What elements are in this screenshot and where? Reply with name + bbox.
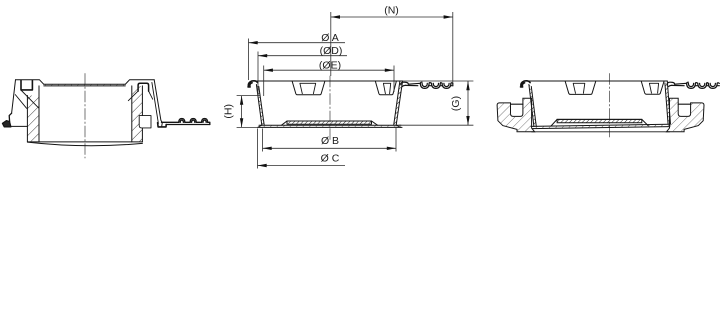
raised bottom panel — [282, 121, 378, 125]
labels — [223, 5, 462, 165]
svg-text:(ØE): (ØE) — [319, 60, 341, 72]
right bayonet window — [139, 116, 151, 128]
right hatched wall band — [132, 86, 143, 142]
dim H — [237, 96, 260, 128]
bottom band right view — [531, 124, 670, 128]
dim E — [264, 66, 394, 97]
svg-text:(G): (G) — [450, 96, 462, 111]
raised bottom panel right view — [551, 119, 648, 126]
svg-text:Ø C: Ø C — [321, 153, 340, 165]
bottom band ticks — [259, 125, 401, 127]
tab ledge line — [11, 125, 27, 127]
bottom rim line — [27, 141, 142, 143]
tear strip center view — [401, 82, 453, 88]
bottom arc — [27, 142, 142, 146]
left wall — [529, 85, 536, 127]
bottom band — [258, 125, 402, 127]
dim A — [248, 39, 250, 81]
dim B — [263, 127, 397, 152]
tear strip right view — [667, 82, 719, 88]
dim G — [399, 81, 473, 125]
top flat right — [125, 80, 154, 85]
dim N — [331, 12, 453, 86]
svg-text:(ØD): (ØD) — [320, 45, 343, 57]
wall bottom flares — [258, 125, 401, 127]
svg-text:(H): (H) — [223, 104, 235, 119]
top band ticks — [44, 84, 125, 86]
centerline right view — [609, 74, 611, 140]
right flange slope lines — [128, 91, 152, 101]
lug 2 right view — [641, 81, 664, 94]
left wall ticks — [256, 85, 264, 126]
top recessed band — [44, 84, 126, 86]
flange top line — [256, 80, 403, 82]
svg-text:Ø B: Ø B — [321, 135, 339, 147]
svg-text:Ø A: Ø A — [321, 32, 339, 44]
left hatched wall band — [27, 96, 39, 142]
right lug pocket — [138, 83, 149, 91]
right outer wall — [154, 80, 162, 127]
svg-text:(N): (N) — [384, 5, 399, 17]
left lug pocket — [21, 80, 32, 90]
lug 1 center view — [292, 81, 325, 94]
neck bore bottom line — [532, 131, 670, 133]
tear strip left view — [158, 119, 210, 127]
dim D — [257, 52, 259, 98]
neck block right — [667, 98, 705, 132]
left outer wall — [12, 80, 16, 113]
left pull tab — [9, 113, 11, 121]
left rim curl — [521, 81, 531, 87]
dim C — [257, 129, 259, 169]
left wall double — [256, 85, 264, 126]
right flange inner wall line — [152, 83, 159, 124]
right wall right view — [665, 81, 671, 124]
neck block left — [497, 98, 534, 132]
flange top line — [528, 80, 667, 82]
centerline left view — [84, 74, 86, 159]
left rim curl — [248, 81, 258, 87]
left flange inner slope lines — [15, 90, 39, 108]
lug 2 center view — [375, 81, 396, 94]
lug 1 right view — [565, 81, 596, 94]
top flat left — [16, 80, 44, 85]
centerline center view — [329, 76, 331, 141]
right wall double — [394, 81, 403, 125]
